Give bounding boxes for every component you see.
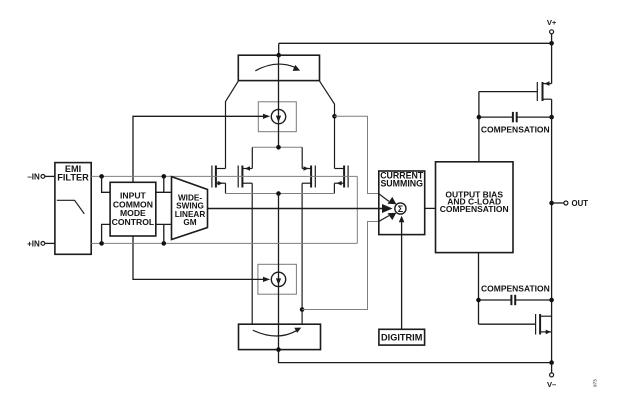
capacitor C1 left wire — [479, 116, 513, 118]
wire: bottom drive / compensation node — [479, 253, 536, 325]
wire: GM output to summing — [208, 204, 393, 213]
block: DIGITRIM — [379, 329, 425, 345]
svg-text:SUMMING: SUMMING — [380, 178, 423, 188]
transistor M2 (inner left) — [238, 166, 252, 325]
wire: tail V+ through I1 to source bus — [278, 55, 280, 147]
capacitor C1 right wire — [517, 116, 552, 118]
transistor M4 (outer right) — [334, 166, 348, 194]
wire: ICMC to I2 control — [133, 236, 270, 282]
terminal V+ — [547, 18, 557, 43]
block: INPUT COMMON MODE CONTROL — [110, 182, 156, 236]
node: +IN branch 2 — [162, 241, 167, 246]
chopper CHOP2 rotation arrow — [253, 328, 301, 336]
wire: Q1 to output rail — [551, 99, 553, 362]
wire: V+ top rail — [279, 42, 552, 44]
arrow: I2 current direction — [276, 278, 281, 285]
capacitor C1 plates — [513, 112, 517, 122]
transistor Q2 (output NMOS) — [536, 314, 552, 335]
chopper box CHOP1 (top) — [238, 55, 319, 80]
wire: diagonal CHOP1 to M1 drain — [226, 81, 239, 169]
current source I2 circle — [271, 272, 285, 286]
block: OUTPUT BIAS AND C-LOAD COMPENSATION — [436, 162, 514, 253]
node: M4 drain tap — [332, 114, 337, 119]
node: -IN branch 2 — [162, 174, 167, 179]
node: V- junction — [549, 360, 554, 365]
wire: M4 drain tap to summing (upper) — [335, 116, 382, 193]
svg-text:DIGITRIM: DIGITRIM — [381, 333, 423, 343]
svg-text:GM: GM — [183, 218, 196, 227]
wire: -IN signal line — [91, 175, 357, 177]
wire: bus corner to M3 source — [301, 147, 303, 168]
svg-text:–IN: –IN — [27, 172, 40, 181]
svg-text:COMPENSATION: COMPENSATION — [481, 284, 550, 294]
wire: ICMC to I1 control — [133, 114, 270, 183]
node: M3 drain tap — [300, 307, 305, 312]
svg-text:+IN: +IN — [27, 239, 40, 248]
node: tail junction bottom — [276, 191, 281, 196]
wire: input link vertical — [356, 176, 358, 243]
node: C1 left — [477, 115, 482, 120]
block: CURRENT SUMMING — [379, 170, 425, 234]
node: V+ junction — [549, 41, 554, 46]
block: WIDE-SWING LINEAR GM — [172, 177, 208, 240]
node: CHOP2 bottom — [276, 347, 281, 352]
wire: rail V+ to Q1 — [551, 43, 553, 83]
svg-text:V+: V+ — [547, 18, 557, 27]
node: +IN branch 1 — [99, 241, 104, 246]
svg-text:OUT: OUT — [572, 199, 589, 208]
terminal V- — [547, 363, 556, 389]
transistor M1 (outer left) — [212, 166, 226, 194]
wire: inner pair source bus — [252, 146, 302, 148]
capacitor C2 plates — [511, 295, 515, 305]
node: OUT junction — [549, 201, 554, 206]
block: EMI FILTER — [55, 163, 91, 255]
arrow: I1 current direction — [276, 116, 281, 123]
svg-text:FILTER: FILTER — [57, 172, 89, 182]
terminal -IN — [27, 172, 55, 181]
svg-text:973: 973 — [593, 379, 598, 387]
arrow: DIGITRIM to sigma — [399, 216, 405, 329]
node: C2 right — [549, 298, 554, 303]
wire: bus corner to M2 source — [251, 147, 253, 168]
svg-text:COMPENSATION: COMPENSATION — [481, 125, 550, 135]
terminal OUT — [552, 199, 589, 208]
wire: top drive / compensation node — [478, 92, 480, 162]
capacitor C2 left wire — [479, 299, 512, 301]
wire: branch to ICMC bottom — [102, 224, 111, 243]
node: CHOP1 top — [276, 53, 281, 58]
chopper CHOP1 rotation arrow — [255, 64, 300, 71]
wire: +IN signal line — [91, 242, 357, 244]
current source I1 circle — [271, 109, 285, 123]
svg-text:CONTROL: CONTROL — [112, 217, 155, 227]
wire: branch to GM top — [156, 176, 172, 192]
arrow: upper input into sigma — [379, 194, 397, 205]
arrow: lower input into sigma — [379, 213, 397, 222]
current source I2 box (bottom) — [258, 264, 297, 294]
wire: outer pair source bus — [226, 193, 335, 195]
wire: M3 drain tap to summing (lower) — [302, 222, 381, 310]
wire: diagonal CHOP1 to M4 drain — [319, 81, 334, 169]
wire: tail to I2 and V- rail — [279, 194, 552, 363]
node: -IN branch 1 — [99, 174, 104, 179]
summing node sigma — [395, 203, 406, 214]
node: tail junction top — [276, 145, 281, 150]
node: C2 left — [476, 298, 481, 303]
capacitor C2 right wire — [515, 299, 551, 301]
svg-text:Σ: Σ — [398, 204, 404, 214]
current source I1 box (top) — [258, 102, 296, 132]
wire: summing to output stage — [425, 207, 436, 209]
terminal +IN — [27, 239, 55, 248]
wire: branch to ICMC top — [102, 176, 111, 192]
transistor Q1 (output PMOS) — [479, 81, 552, 101]
node: C1 right — [549, 115, 554, 120]
transistor M3 (inner right) — [302, 166, 315, 325]
wire: rail drop to CHOP1 — [278, 43, 280, 55]
wire: branch to GM bottom — [156, 224, 172, 243]
chopper box CHOP2 (bottom) — [239, 324, 321, 349]
svg-text:V–: V– — [547, 380, 556, 389]
svg-text:COMPENSATION: COMPENSATION — [440, 204, 509, 214]
